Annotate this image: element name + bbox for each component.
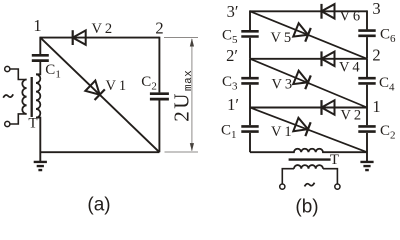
- svg-text:V 6: V 6: [340, 9, 361, 25]
- svg-text:T: T: [28, 116, 37, 132]
- svg-text:V 2: V 2: [92, 21, 113, 37]
- wire: lower rail 1' to 1: [250, 107, 367, 109]
- wire: left rail upper segment (node 1 down to C1): [39, 37, 41, 54]
- wire: diagonal 3' to 2: [250, 11, 367, 59]
- wire: left rail segment 3'-C5: [249, 10, 251, 30]
- svg-text:C1: C1: [45, 62, 61, 81]
- wire: primary right lead (b): [323, 169, 337, 184]
- wire: right rail segment C2-bottom + ground stub: [366, 133, 368, 162]
- svg-text:C3: C3: [222, 74, 238, 93]
- terminal circle right (b): [335, 184, 340, 189]
- wire: left rail between C1 and secondary winding: [36, 62, 40, 74]
- svg-text:1: 1: [372, 97, 380, 116]
- wire: right rail segment 3-C6: [366, 10, 368, 29]
- ground symbol (a): [34, 162, 47, 170]
- wire: left rail segment 1'-C1: [249, 108, 251, 126]
- svg-text:3′: 3′: [227, 2, 239, 21]
- wire: right rail segment C4-1: [366, 85, 368, 108]
- svg-text:2′: 2′: [226, 46, 238, 65]
- capacitor C1 (b) plates: [241, 126, 258, 131]
- wire: right rail lower segment: [158, 100, 160, 152]
- svg-text:3: 3: [372, 0, 380, 18]
- capacitor C2 (b) plates: [358, 126, 375, 131]
- svg-text:V 1: V 1: [106, 78, 127, 94]
- wire: top rail 3' to 3: [250, 10, 367, 12]
- extension line top (dimension): [164, 37, 198, 39]
- terminal circle bottom (a): [5, 121, 10, 126]
- transformer T core (a): [31, 77, 33, 117]
- label ~ source (b): [305, 183, 315, 187]
- wire: left rail segment C1-bottom: [249, 133, 251, 152]
- transformer T core (b): [289, 158, 331, 160]
- wire: diagonal 1' to bottom right corner: [250, 108, 367, 153]
- wire: top rail of (a) from node 1 to node 2: [40, 37, 159, 39]
- wire: primary left lead (b): [282, 169, 294, 184]
- wire: right rail segment 1-C2: [366, 108, 368, 126]
- diode V3 on diagonal 2'-1: [293, 71, 311, 90]
- svg-text:1: 1: [33, 16, 41, 35]
- capacitor C1 plates: [32, 55, 49, 60]
- diode V1 (b) on diagonal 1'-bottom: [293, 118, 310, 136]
- svg-text:C6: C6: [380, 27, 396, 46]
- svg-text:C1: C1: [221, 122, 237, 141]
- label ~ source (a): [3, 94, 13, 97]
- svg-text:2Umax: 2Umax: [169, 70, 195, 122]
- ground symbol (b): [360, 162, 373, 170]
- wire: left rail segment 2'-C3: [249, 59, 251, 77]
- svg-text:(b): (b): [295, 197, 318, 218]
- svg-text:C2: C2: [141, 74, 157, 93]
- wire: left rail segment C3-1': [249, 85, 251, 108]
- inductor: transformer T secondary winding (a): [36, 74, 40, 117]
- svg-text:V 3: V 3: [272, 77, 293, 93]
- svg-text:V 1: V 1: [271, 124, 292, 140]
- svg-text:C5: C5: [222, 27, 238, 46]
- diode V2 (a) on top rail: [73, 30, 86, 45]
- svg-text:(a): (a): [87, 195, 110, 216]
- wire: middle rail 2' to 2: [250, 58, 367, 60]
- capacitor C4 plates: [358, 78, 375, 83]
- diode V6 on top rail: [322, 4, 335, 19]
- dimension arrow down: [190, 143, 194, 151]
- terminal circle left (b): [280, 184, 285, 189]
- capacitor C6 plates: [358, 31, 375, 36]
- wire: bottom rail of (a): [40, 151, 159, 153]
- inductor: transformer T primary winding (b): [294, 165, 323, 169]
- svg-text:2: 2: [155, 19, 163, 38]
- diode V5 on diagonal 3'-2: [293, 23, 311, 42]
- wire: diagonal from node 1 to bottom right corner: [40, 38, 159, 153]
- svg-text:C2: C2: [380, 123, 396, 142]
- svg-text:2: 2: [372, 46, 380, 65]
- svg-text:V 4: V 4: [339, 60, 360, 76]
- svg-text:V 5: V 5: [271, 30, 292, 46]
- capacitor C5 plates: [241, 31, 258, 36]
- wire: primary top lead: [10, 69, 27, 80]
- svg-text:T: T: [330, 152, 339, 168]
- dimension line 2Umax: [191, 39, 193, 151]
- capacitor C2 plates: [150, 94, 169, 99]
- wire: primary bottom lead: [10, 114, 27, 124]
- diode V4 on middle rail: [322, 51, 335, 66]
- terminal circle top (a): [5, 66, 10, 71]
- label 2Umax (rotated): [169, 70, 195, 122]
- capacitor C3 plates: [241, 78, 258, 83]
- wire: right rail segment C6-2: [366, 37, 368, 59]
- diode V1 (a) on diagonal: [85, 80, 105, 100]
- dimension arrow up: [190, 38, 194, 46]
- wire: right rail upper segment (node 2 to C2): [158, 37, 160, 93]
- extension line bottom (dimension): [165, 151, 199, 153]
- wire: bottom rail with transformer secondary winding (b): [250, 149, 367, 152]
- svg-text:1′: 1′: [227, 95, 239, 114]
- wire: diagonal 2' to 1: [250, 59, 367, 108]
- inductor: transformer T primary winding (a): [22, 80, 26, 114]
- wire: left rail below winding down to bottom rail and ground stub: [36, 118, 40, 162]
- wire: right rail segment 2-C4: [366, 59, 368, 77]
- wire: left rail segment C5-2': [249, 38, 251, 59]
- diode V2 (b) on lower rail: [322, 100, 335, 115]
- svg-text:V 2: V 2: [341, 108, 362, 124]
- svg-text:C4: C4: [379, 75, 395, 94]
